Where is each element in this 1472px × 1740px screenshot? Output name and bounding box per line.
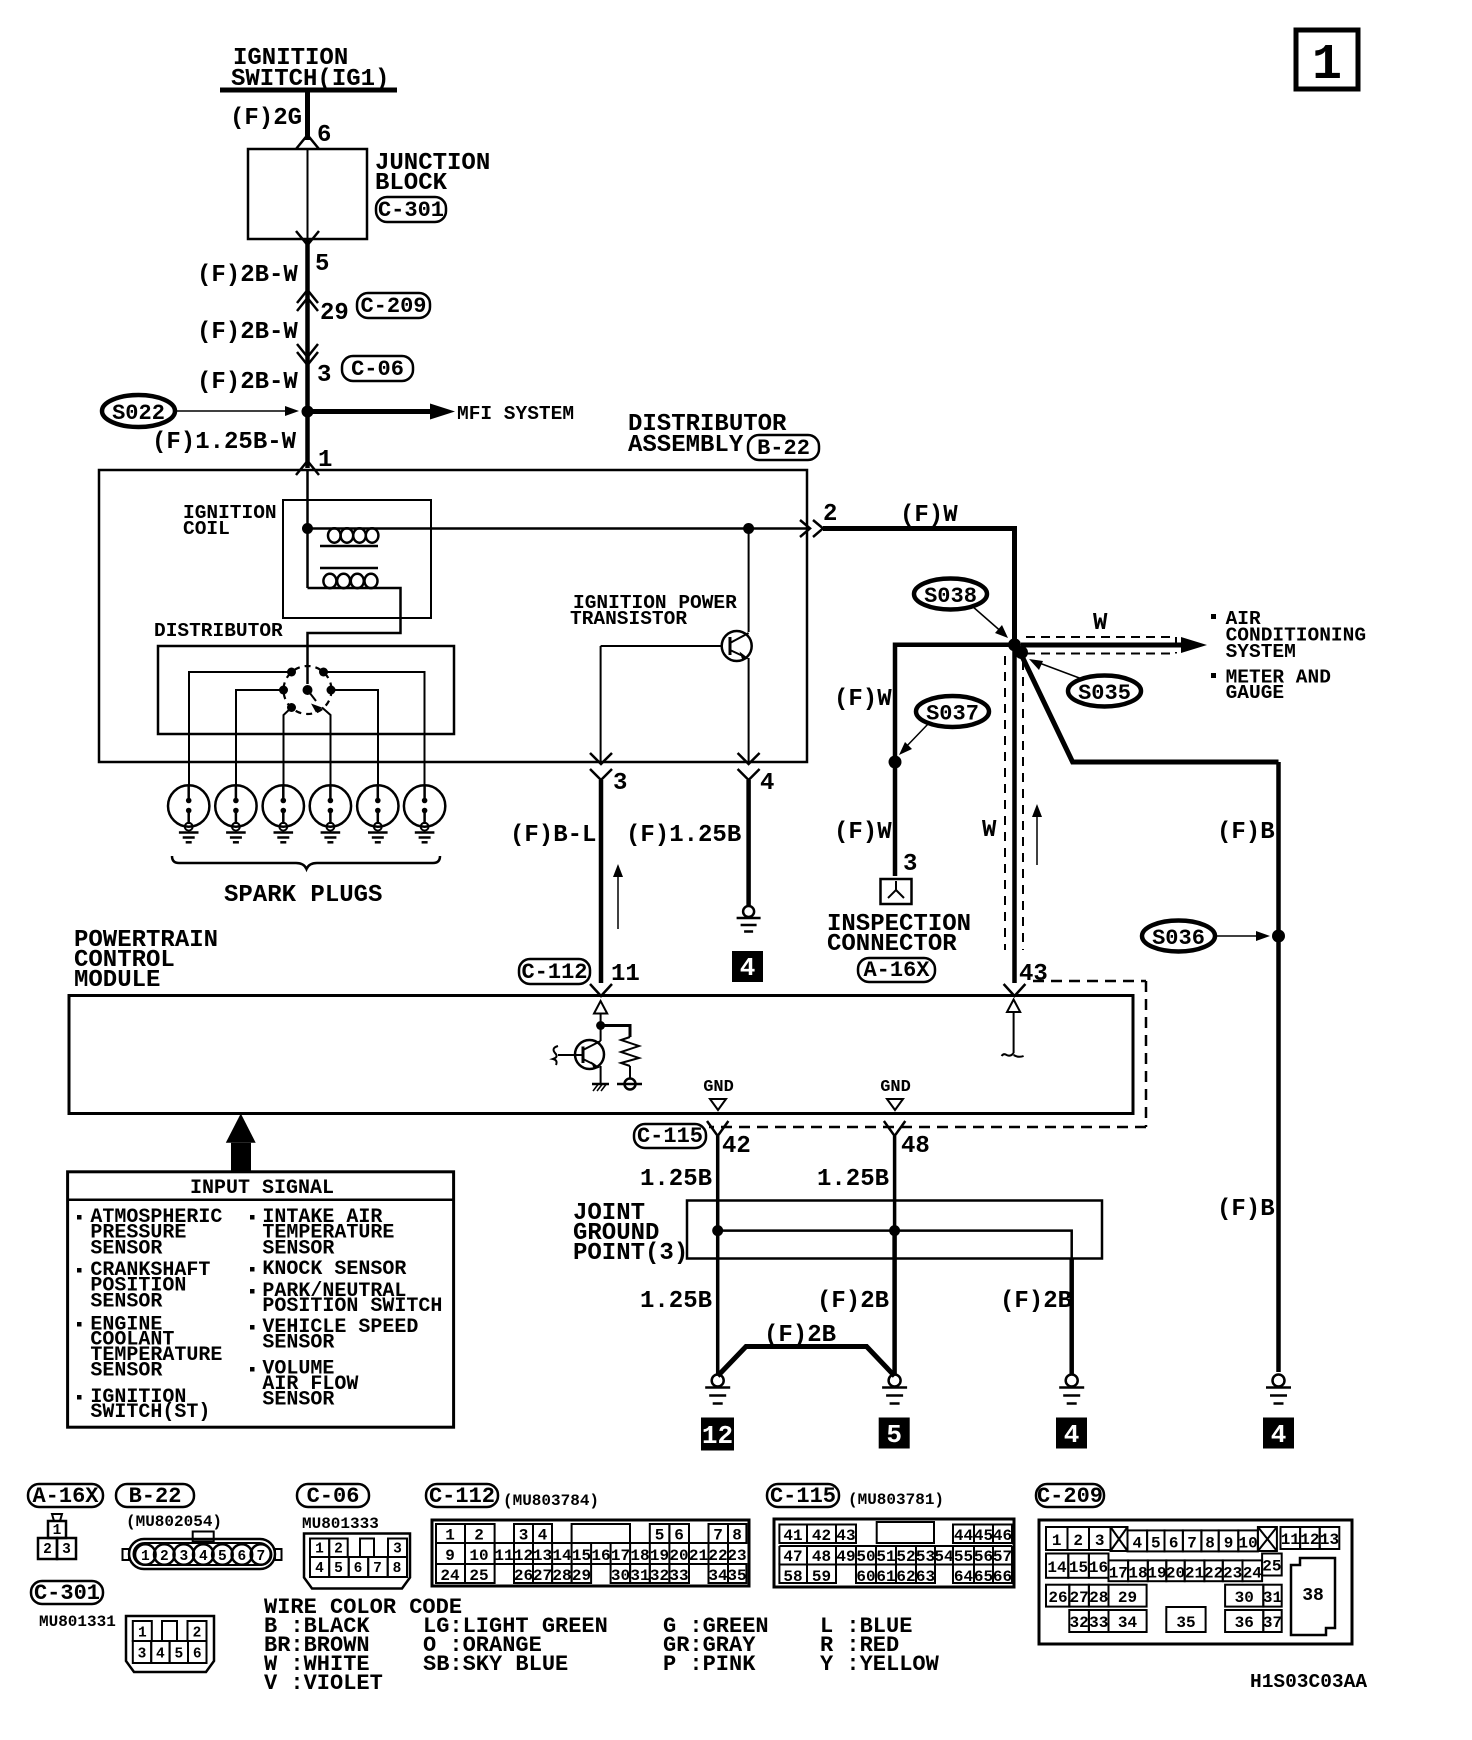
PCM internal pin 43 triangle and hook <box>1002 1000 1024 1057</box>
ground 4 joint <box>1059 1375 1084 1404</box>
coil node dot <box>302 523 313 534</box>
svg-text:S038: S038 <box>924 584 977 609</box>
PCM internal symbol circle <box>617 1079 642 1090</box>
node S022 junction dot <box>302 406 314 418</box>
connector chevron pin 11 <box>590 984 612 996</box>
wire (F)W pin2 to junction <box>823 529 1015 644</box>
svg-text:ASSEMBLY: ASSEMBLY <box>628 432 744 459</box>
svg-text:16: 16 <box>591 1547 610 1565</box>
svg-text:C-112: C-112 <box>429 1484 495 1509</box>
junction block C-301 <box>248 149 367 239</box>
svg-text:(F)1.25B: (F)1.25B <box>626 822 741 849</box>
splice S035 <box>1068 676 1141 707</box>
spark plug wire 5 <box>331 690 378 786</box>
S037 junction dot <box>889 756 902 769</box>
ignition power transistor label <box>570 592 737 630</box>
inspection connector label <box>827 911 971 958</box>
svg-text:(F)2B-W: (F)2B-W <box>197 369 298 396</box>
svg-text:6: 6 <box>317 122 331 149</box>
svg-text:23: 23 <box>1223 1565 1242 1583</box>
svg-text:C-115: C-115 <box>637 1124 703 1149</box>
svg-text:1: 1 <box>1052 1532 1062 1550</box>
wire 48 to ground 5 <box>892 1231 897 1374</box>
dashed channel wire 43 <box>1005 656 1023 950</box>
svg-text:4: 4 <box>315 1561 324 1577</box>
ground number box 4a <box>1056 1418 1087 1451</box>
spark plugs brace <box>172 856 440 869</box>
svg-text:SENSOR: SENSOR <box>262 1389 334 1412</box>
junction node S038 dot <box>1008 638 1021 651</box>
svg-text:(F)B: (F)B <box>1217 819 1275 846</box>
distributor assembly label <box>628 411 787 459</box>
svg-text:H1S03C03AA: H1S03C03AA <box>1250 1671 1367 1693</box>
svg-text:26: 26 <box>1048 1589 1067 1607</box>
svg-text:1: 1 <box>141 1549 150 1565</box>
svg-text:43: 43 <box>1019 961 1048 988</box>
svg-text:POSITION SWITCH: POSITION SWITCH <box>262 1295 442 1318</box>
svg-text:9: 9 <box>445 1547 455 1565</box>
svg-text:63: 63 <box>916 1568 935 1586</box>
svg-text:15: 15 <box>572 1547 591 1565</box>
wire (F)1.25B-W to distributor <box>305 412 310 469</box>
svg-text:INPUT SIGNAL: INPUT SIGNAL <box>190 1177 334 1200</box>
svg-text:TRANSISTOR: TRANSISTOR <box>570 608 687 630</box>
connector chevron pin 42 <box>707 1121 728 1136</box>
connector C-115 drawing <box>774 1519 1014 1587</box>
pill C-112 bottom <box>426 1484 498 1509</box>
svg-text:5: 5 <box>218 1549 227 1565</box>
svg-text:SENSOR: SENSOR <box>90 1360 162 1383</box>
connector chevron pin 43 <box>1004 984 1026 996</box>
connector chevrons C-06 crossing <box>297 344 318 365</box>
svg-text:24: 24 <box>1243 1565 1263 1583</box>
svg-text:54: 54 <box>934 1548 954 1566</box>
spark plugs <box>168 785 445 842</box>
svg-text:C-301: C-301 <box>378 198 444 223</box>
ignition switch bus bar <box>220 88 397 93</box>
current arrow up 43 <box>1032 804 1042 865</box>
joint ground internal wire <box>712 1225 1071 1259</box>
ground pin 4 <box>737 906 761 932</box>
wire (F)B down <box>1276 762 1281 1372</box>
svg-text:5: 5 <box>1151 1535 1161 1553</box>
spark plug wire 2 <box>236 690 284 786</box>
wire color code column 4 <box>820 1614 940 1677</box>
svg-text:5: 5 <box>655 1527 665 1545</box>
svg-text:60: 60 <box>856 1568 875 1586</box>
svg-text:33: 33 <box>669 1567 688 1585</box>
ground 12 <box>705 1375 730 1404</box>
svg-text:C-06: C-06 <box>307 1484 360 1509</box>
svg-text:51: 51 <box>876 1548 895 1566</box>
arrow S022 to node <box>176 406 299 416</box>
PCM internal ground hatch <box>592 1084 609 1091</box>
svg-text:10: 10 <box>469 1547 488 1565</box>
svg-text:S037: S037 <box>926 702 979 727</box>
joint ground point label <box>573 1200 688 1267</box>
svg-text:10: 10 <box>1238 1535 1257 1553</box>
svg-text:1: 1 <box>315 1542 324 1558</box>
svg-text:1.25B: 1.25B <box>640 1166 712 1193</box>
distributor inner box <box>158 646 454 734</box>
svg-text:12: 12 <box>514 1547 533 1565</box>
svg-text:V :VIOLET: V :VIOLET <box>264 1671 383 1696</box>
svg-text:5: 5 <box>886 1420 902 1450</box>
svg-text:2: 2 <box>193 1626 202 1642</box>
arrow S036 to wire <box>1215 931 1270 941</box>
svg-text:28: 28 <box>1089 1589 1108 1607</box>
svg-text:14: 14 <box>552 1547 572 1565</box>
svg-text:27: 27 <box>1069 1589 1088 1607</box>
ground number box 4b <box>1263 1418 1294 1451</box>
svg-text:MU801333: MU801333 <box>302 1515 379 1533</box>
svg-text:11: 11 <box>611 961 640 988</box>
connector chevrons C-209 crossing <box>297 290 318 311</box>
svg-text:50: 50 <box>856 1548 875 1566</box>
wire coil to pin 2 <box>378 527 807 530</box>
svg-text:32: 32 <box>1069 1614 1088 1632</box>
svg-text:29: 29 <box>572 1567 591 1585</box>
ignition coil label <box>183 502 277 540</box>
wire pin 3 to PCM <box>599 780 604 983</box>
ignition power transistor <box>601 631 752 661</box>
svg-text:3: 3 <box>317 362 331 389</box>
pill C-115 <box>634 1124 706 1149</box>
svg-text:36: 36 <box>1235 1614 1254 1632</box>
distributor contact dots <box>279 668 336 713</box>
svg-text:35: 35 <box>1176 1614 1195 1632</box>
svg-text:C-112: C-112 <box>521 960 587 985</box>
connector chevron pin 6 <box>296 135 319 149</box>
svg-text:65: 65 <box>974 1568 993 1586</box>
svg-text:MODULE: MODULE <box>74 967 160 994</box>
page number box 1 <box>1296 30 1358 94</box>
svg-text:(F)W: (F)W <box>834 819 892 846</box>
svg-text:(F)2B: (F)2B <box>817 1288 889 1315</box>
pill C-209 bottom <box>1036 1484 1104 1509</box>
PCM dashed boundary extension <box>709 981 1146 1127</box>
svg-text:1.25B: 1.25B <box>640 1288 712 1315</box>
svg-text:16: 16 <box>1089 1559 1108 1577</box>
connector C-301 drawing <box>126 1616 214 1672</box>
svg-text:62: 62 <box>896 1568 915 1586</box>
connector C-209 drawing <box>1039 1520 1352 1644</box>
wire 42 to ground 12 <box>716 1231 720 1374</box>
svg-text:4: 4 <box>740 953 756 983</box>
svg-text:20: 20 <box>1166 1565 1185 1583</box>
connector A-16X drawing <box>38 1514 76 1559</box>
svg-text:41: 41 <box>783 1527 802 1545</box>
arrow S035 to junction <box>1029 659 1082 679</box>
svg-text:(F)2B-W: (F)2B-W <box>197 319 298 346</box>
wire (F)2G from ignition switch to junction block <box>305 90 310 140</box>
svg-text:KNOCK SENSOR: KNOCK SENSOR <box>262 1258 406 1281</box>
svg-text:29: 29 <box>1118 1589 1137 1607</box>
ignition coil secondary winding <box>308 529 401 685</box>
pill B-22 <box>748 435 819 461</box>
svg-text:(F)2G: (F)2G <box>230 105 302 132</box>
svg-text:21: 21 <box>1185 1565 1204 1583</box>
svg-text:13: 13 <box>533 1547 552 1565</box>
spark plug wire 1 <box>189 672 292 786</box>
svg-text:38: 38 <box>1302 1586 1324 1606</box>
svg-text:2: 2 <box>474 1527 484 1545</box>
svg-text:7: 7 <box>257 1549 266 1565</box>
svg-text:3: 3 <box>393 1542 402 1558</box>
svg-text:A-16X: A-16X <box>32 1484 99 1509</box>
svg-text:MFI SYSTEM: MFI SYSTEM <box>457 403 574 425</box>
dashed channel around W wire to AC <box>1026 637 1176 654</box>
svg-text:4: 4 <box>760 770 774 797</box>
svg-text:2: 2 <box>43 1542 52 1558</box>
svg-text:3: 3 <box>519 1527 529 1545</box>
svg-text:47: 47 <box>783 1548 802 1566</box>
svg-text:7: 7 <box>1187 1535 1197 1553</box>
svg-text:46: 46 <box>993 1527 1012 1545</box>
svg-text:12: 12 <box>1300 1531 1319 1549</box>
svg-text:42: 42 <box>722 1133 751 1160</box>
pill C-06 bottom <box>297 1484 369 1509</box>
input signal box <box>68 1172 454 1427</box>
svg-text:7: 7 <box>713 1527 723 1545</box>
svg-text:7: 7 <box>373 1561 382 1577</box>
svg-text:3: 3 <box>1095 1532 1105 1550</box>
svg-text:17: 17 <box>1109 1565 1128 1583</box>
connector C-06 drawing <box>304 1534 410 1589</box>
ignition coil primary winding <box>308 528 379 542</box>
svg-text:SYSTEM: SYSTEM <box>1226 641 1296 663</box>
svg-text:37: 37 <box>1263 1614 1282 1632</box>
svg-text:SENSOR: SENSOR <box>262 1237 334 1260</box>
svg-text:CONNECTOR: CONNECTOR <box>827 931 957 958</box>
svg-text:4: 4 <box>1132 1535 1142 1553</box>
svg-text:20: 20 <box>669 1547 688 1565</box>
connector B-22 drawing <box>123 1532 282 1570</box>
svg-text:S036: S036 <box>1152 926 1205 951</box>
svg-text:9: 9 <box>1224 1535 1234 1553</box>
svg-text:SENSOR: SENSOR <box>262 1332 334 1355</box>
svg-text:18: 18 <box>1128 1565 1147 1583</box>
wire junction to S037 branch <box>895 645 1015 876</box>
inspection connector box <box>881 879 912 904</box>
svg-text:C-209: C-209 <box>360 294 426 319</box>
svg-text:6: 6 <box>674 1527 684 1545</box>
coil core lines <box>320 546 378 568</box>
svg-text:COIL: COIL <box>183 518 230 540</box>
svg-text:66: 66 <box>993 1568 1012 1586</box>
arrow S037 to wire <box>899 723 929 755</box>
svg-text:32: 32 <box>650 1567 669 1585</box>
svg-text:4: 4 <box>199 1549 208 1565</box>
splice S036 <box>1142 921 1215 952</box>
svg-text:8: 8 <box>732 1527 742 1545</box>
svg-text:Y :YELLOW: Y :YELLOW <box>820 1652 940 1677</box>
svg-text:(F)B-L: (F)B-L <box>510 822 596 849</box>
transistor emitter wire down <box>748 658 750 762</box>
ground number box 12 <box>701 1418 734 1452</box>
svg-text:43: 43 <box>836 1527 855 1545</box>
input signal arrow <box>226 1114 256 1172</box>
input signal list column 1 <box>77 1206 222 1424</box>
svg-text:30: 30 <box>611 1567 630 1585</box>
svg-text:GND: GND <box>703 1078 734 1097</box>
pill C-301 <box>376 197 446 223</box>
svg-text:30: 30 <box>1235 1589 1254 1607</box>
pill A-16X bottom <box>28 1484 103 1509</box>
svg-text:SPARK PLUGS: SPARK PLUGS <box>224 882 382 909</box>
svg-text:35: 35 <box>727 1567 746 1585</box>
svg-text:14: 14 <box>1047 1559 1067 1577</box>
svg-text:(F)W: (F)W <box>900 502 958 529</box>
svg-text:(MU802054): (MU802054) <box>126 1513 222 1531</box>
rotor arm arrow <box>308 690 323 713</box>
splice S038 <box>914 579 987 610</box>
S036 junction dot <box>1272 930 1285 943</box>
svg-text:6: 6 <box>354 1561 363 1577</box>
svg-text:SENSOR: SENSOR <box>90 1290 162 1313</box>
meter and gauge label <box>1211 666 1331 704</box>
pill A-16X <box>858 958 935 983</box>
ground 5 <box>882 1375 907 1404</box>
svg-text:2: 2 <box>160 1549 169 1565</box>
wire coil node to transistor <box>743 523 754 632</box>
svg-text:21: 21 <box>689 1547 708 1565</box>
wire 2B to ground 4 <box>1069 1259 1074 1374</box>
svg-text:34: 34 <box>708 1567 728 1585</box>
distributor rotor circle dashed <box>284 666 332 714</box>
svg-text:22: 22 <box>1204 1565 1223 1583</box>
pill C-115 bottom <box>767 1484 839 1509</box>
ignition switch (IG1) label <box>231 45 389 93</box>
svg-text:11: 11 <box>494 1547 513 1565</box>
splice S022 <box>102 395 175 427</box>
svg-text:28: 28 <box>552 1567 571 1585</box>
svg-text:5: 5 <box>334 1561 343 1577</box>
svg-text:11: 11 <box>1281 1531 1300 1549</box>
svg-text:6: 6 <box>1169 1535 1179 1553</box>
svg-text:C-301: C-301 <box>34 1581 100 1606</box>
PCM internal power triangle pin 11 <box>594 1001 607 1041</box>
svg-text:3: 3 <box>62 1542 71 1558</box>
svg-text:P :PINK: P :PINK <box>663 1652 756 1677</box>
distributor center dot <box>303 685 313 695</box>
wire arrow to MFI SYSTEM <box>308 404 456 420</box>
svg-text:3: 3 <box>613 770 627 797</box>
svg-text:A-16X: A-16X <box>863 958 930 983</box>
svg-text:19: 19 <box>1147 1565 1166 1583</box>
current arrow up pin3 wire <box>613 864 623 929</box>
wire 42 to joint ground <box>716 1136 720 1231</box>
connector chevron pin 3 <box>590 753 612 780</box>
svg-text:6: 6 <box>193 1647 202 1663</box>
svg-text:POINT(3): POINT(3) <box>573 1240 688 1267</box>
svg-text:5: 5 <box>315 251 329 278</box>
svg-text:48: 48 <box>901 1133 930 1160</box>
svg-text:(F)1.25B-W: (F)1.25B-W <box>152 429 297 456</box>
svg-text:48: 48 <box>812 1548 831 1566</box>
svg-text:1: 1 <box>445 1527 455 1545</box>
svg-text:1: 1 <box>1312 37 1342 94</box>
svg-text:27: 27 <box>533 1567 552 1585</box>
svg-text:SENSOR: SENSOR <box>90 1237 162 1260</box>
svg-text:45: 45 <box>974 1527 993 1545</box>
svg-text:GAUGE: GAUGE <box>1226 682 1285 704</box>
svg-text:3: 3 <box>179 1549 188 1565</box>
air conditioning system label <box>1211 608 1366 663</box>
svg-text:W: W <box>982 817 997 844</box>
svg-text:4: 4 <box>538 1527 548 1545</box>
spark plug wire 6 <box>324 672 425 786</box>
input signal list column 2 <box>250 1206 442 1412</box>
svg-text:55: 55 <box>954 1548 973 1566</box>
ground number box 5 <box>879 1418 910 1451</box>
ground number box 4 <box>732 951 763 983</box>
arrow S038 to junction <box>972 606 1008 638</box>
svg-text:12: 12 <box>702 1421 733 1451</box>
svg-text:(F)2B-W: (F)2B-W <box>197 262 298 289</box>
svg-text:(F)B: (F)B <box>1217 1196 1275 1223</box>
svg-text:8: 8 <box>393 1561 402 1577</box>
wire 48 to joint ground <box>893 1136 897 1231</box>
GND triangle 42 <box>710 1099 726 1110</box>
svg-text:(MU803784): (MU803784) <box>503 1492 599 1510</box>
svg-text:18: 18 <box>630 1547 649 1565</box>
svg-text:52: 52 <box>896 1548 915 1566</box>
svg-text:34: 34 <box>1118 1614 1138 1632</box>
svg-text:19: 19 <box>650 1547 669 1565</box>
wire (F)2B trapezoid <box>718 1347 895 1377</box>
svg-text:26: 26 <box>514 1567 533 1585</box>
svg-text:(MU803781): (MU803781) <box>848 1491 944 1509</box>
PCM internal transistor Q <box>553 1040 604 1084</box>
splice S037 <box>916 696 989 727</box>
svg-text:S035: S035 <box>1078 681 1131 706</box>
svg-text:W: W <box>1093 610 1108 637</box>
svg-text:S022: S022 <box>112 401 165 426</box>
svg-text:42: 42 <box>812 1527 831 1545</box>
svg-text:61: 61 <box>876 1568 895 1586</box>
svg-text:13: 13 <box>1320 1531 1339 1549</box>
ground 4 FB <box>1266 1375 1291 1404</box>
svg-text:1: 1 <box>53 1523 62 1539</box>
connector chevron pin 48 <box>884 1121 905 1136</box>
spark plug wire 3 <box>284 708 292 787</box>
wire (F)2B-W junction block to splice <box>305 239 310 412</box>
connector C-112 drawing <box>432 1520 749 1586</box>
distributor assembly box <box>99 470 807 762</box>
transistor base wire down <box>600 646 602 762</box>
svg-text:MU801331: MU801331 <box>39 1613 116 1631</box>
svg-text:6: 6 <box>238 1549 247 1565</box>
svg-text:59: 59 <box>812 1568 831 1586</box>
PCM internal resistor R <box>601 1026 639 1080</box>
wire thick arrow to air conditioning <box>1021 637 1207 653</box>
svg-text:2: 2 <box>823 501 837 528</box>
connector chevron pin 1 <box>296 461 319 475</box>
svg-text:4: 4 <box>156 1647 165 1663</box>
svg-text:8: 8 <box>1205 1535 1215 1553</box>
wire diagonal junction to (F)B <box>1019 650 1279 762</box>
svg-text:2: 2 <box>1073 1532 1083 1550</box>
ignition coil box <box>283 500 431 618</box>
connector chevrons pin 2 <box>800 520 823 537</box>
svg-text:4: 4 <box>1271 1420 1287 1450</box>
wire W to pin 43 <box>1012 645 1017 983</box>
svg-text:5: 5 <box>174 1647 183 1663</box>
svg-text:(F)2B: (F)2B <box>1000 1288 1072 1315</box>
svg-text:56: 56 <box>974 1548 993 1566</box>
svg-text:25: 25 <box>469 1567 488 1585</box>
